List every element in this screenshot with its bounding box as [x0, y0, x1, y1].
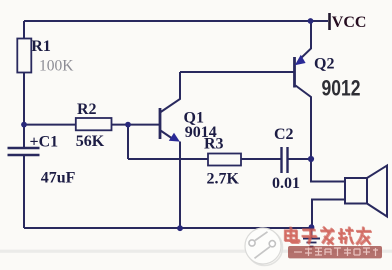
svg-text:R3: R3	[204, 136, 224, 153]
svg-text:+C1: +C1	[30, 133, 59, 150]
svg-text:R2: R2	[77, 101, 97, 118]
svg-text:2.7K: 2.7K	[207, 171, 240, 188]
svg-text:VCC: VCC	[332, 14, 367, 31]
svg-text:Q2: Q2	[314, 56, 334, 73]
svg-text:0.01: 0.01	[272, 175, 300, 192]
svg-text:56K: 56K	[76, 133, 105, 150]
svg-text:9012: 9012	[322, 75, 361, 100]
svg-text:100K: 100K	[39, 58, 74, 75]
svg-text:47uF: 47uF	[41, 170, 76, 187]
svg-text:C2: C2	[274, 126, 294, 143]
svg-text:R1: R1	[31, 38, 51, 55]
